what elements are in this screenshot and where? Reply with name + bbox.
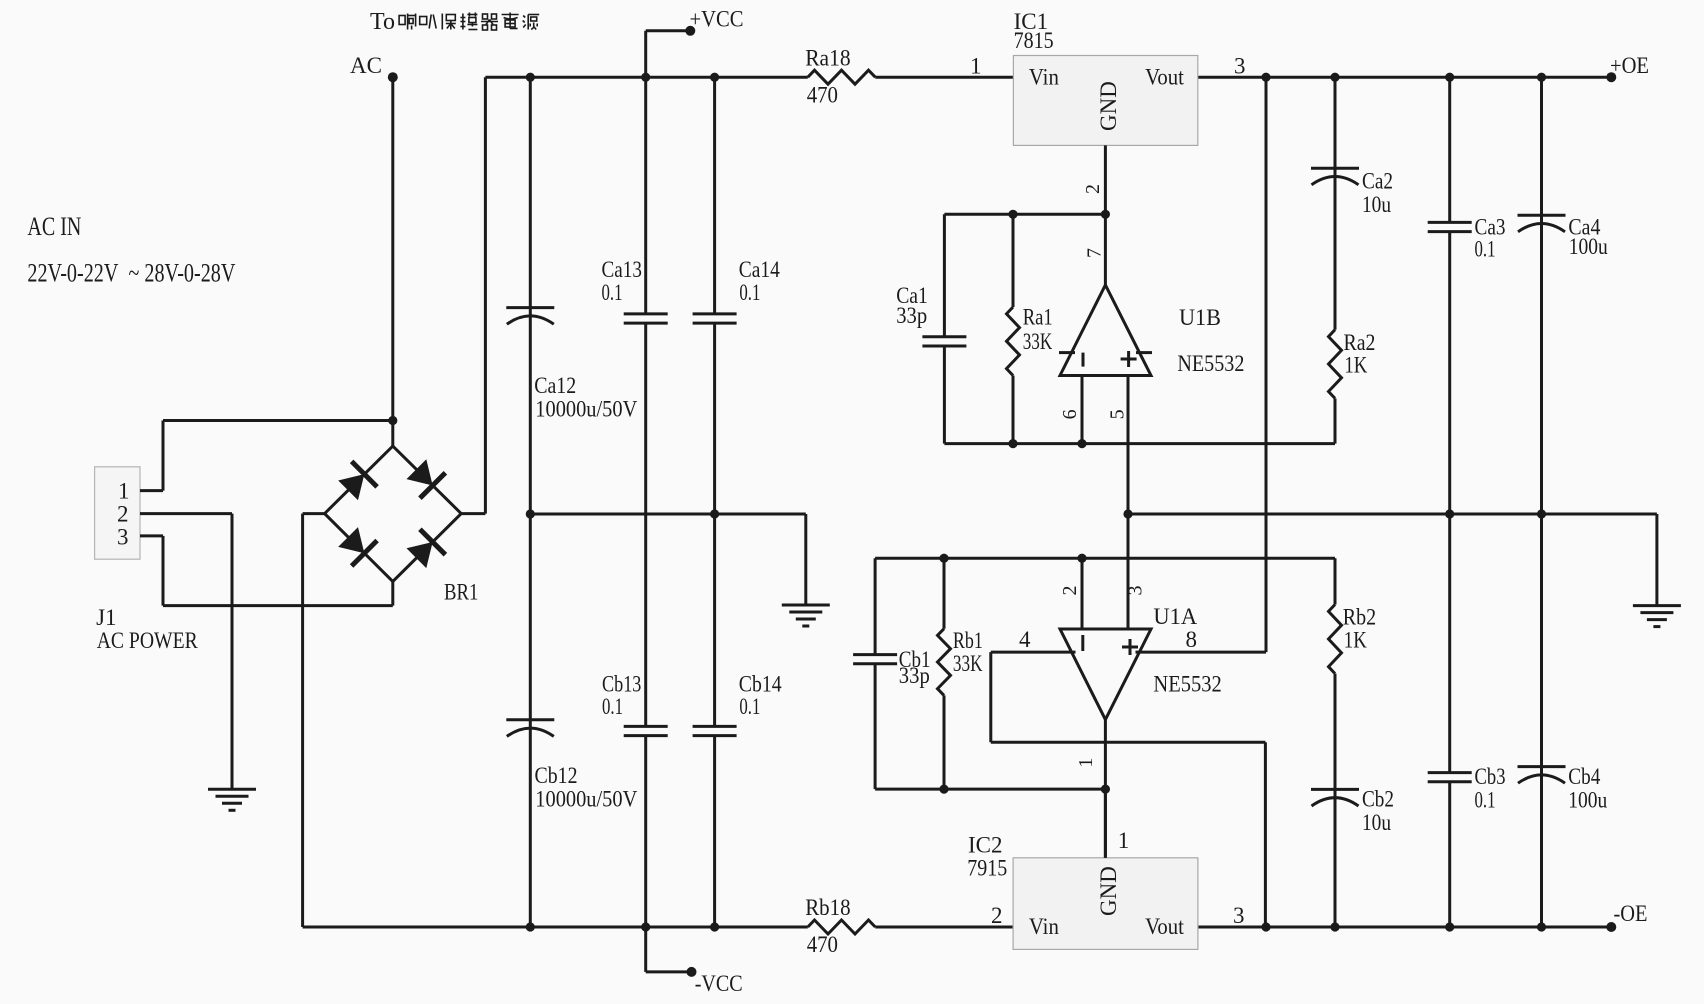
svg-text:Cb3: Cb3 (1475, 764, 1506, 789)
resistor Ra18 (808, 70, 876, 84)
resistor Ra1 upper lead (1012, 214, 1015, 307)
wire U1A pin2 lead (1081, 558, 1084, 629)
wire Rb2 upper lead from 558 bus (1334, 558, 1337, 604)
wire top rail from IC1 to +OE (1198, 76, 1611, 79)
svg-text:+VCC: +VCC (690, 7, 744, 32)
capacitor Ca1 lower lead (943, 346, 946, 444)
svg-text:33p: 33p (899, 663, 930, 688)
svg-text:IC2: IC2 (968, 833, 1003, 858)
svg-text:1: 1 (970, 54, 982, 79)
capacitor Cb12 (506, 718, 554, 721)
wire bridge right vertex to +rail (461, 512, 485, 515)
node AC terminal dot (388, 72, 398, 82)
svg-text:3: 3 (1233, 903, 1245, 928)
svg-text:AC POWER: AC POWER (97, 628, 199, 653)
op-amp U1B minus mark (1082, 353, 1085, 367)
wire +VCC stub (646, 29, 691, 32)
ground J1 pin2 (208, 788, 256, 791)
capacitor Cb4 (1518, 765, 1566, 768)
svg-text:Rb1: Rb1 (953, 628, 983, 653)
svg-text:33K: 33K (1023, 329, 1053, 354)
svg-text:NE5532: NE5532 (1177, 351, 1244, 376)
wire Ca12 Cb12 column (529, 77, 532, 927)
wire U1A pin8 column (1265, 77, 1268, 652)
op-amp U1B plus mark (1121, 358, 1137, 361)
diode BR1 bottom-left (335, 524, 377, 566)
op-amp U1A plus mark (1122, 646, 1138, 649)
junction dots mid rail right (1123, 509, 1132, 518)
capacitor Ca12 (506, 306, 554, 309)
svg-text:100u: 100u (1568, 788, 1607, 813)
capacitor Cb2 (1311, 788, 1359, 791)
svg-text:33p: 33p (896, 303, 927, 328)
svg-text:7: 7 (1084, 248, 1106, 258)
svg-text:AC: AC (350, 53, 382, 78)
svg-text:-OE: -OE (1614, 901, 1648, 926)
junction dots top rail (526, 73, 535, 82)
wire bottom rail from IC2 to -OE (1198, 926, 1611, 929)
svg-text:3: 3 (1124, 586, 1146, 596)
svg-text:Cb14: Cb14 (739, 672, 782, 697)
svg-text:6: 6 (1059, 409, 1081, 419)
wire Ca3 upper lead (1448, 77, 1451, 222)
capacitor Ca1 (922, 335, 966, 338)
svg-text:Vin: Vin (1029, 914, 1059, 939)
svg-text:2: 2 (1059, 586, 1081, 596)
node -OE terminal (1606, 922, 1616, 932)
svg-text:0.1: 0.1 (602, 280, 623, 305)
diode BR1 top-left (335, 461, 377, 503)
junction dots mid rail left (526, 509, 535, 518)
svg-text:470: 470 (807, 83, 838, 108)
svg-text:Rb18: Rb18 (805, 895, 850, 920)
resistor Rb2 (1329, 605, 1342, 674)
wire IC2 GND pin (1104, 789, 1107, 858)
svg-text:-VCC: -VCC (695, 971, 743, 996)
svg-text:Ra18: Ra18 (805, 46, 850, 71)
wire U1B pin6 lead (1081, 376, 1084, 444)
svg-text:Rb2: Rb2 (1343, 604, 1376, 629)
capacitor Cb14 (693, 725, 737, 728)
wire AC vertical (391, 77, 394, 420)
svg-text:Vin: Vin (1029, 65, 1059, 90)
svg-text:2: 2 (117, 502, 129, 527)
svg-text:100u: 100u (1569, 234, 1608, 259)
svg-text:8: 8 (1186, 627, 1198, 652)
svg-text:2: 2 (991, 903, 1003, 928)
svg-text:0.1: 0.1 (739, 280, 760, 305)
ground right (1633, 604, 1681, 607)
svg-text:7915: 7915 (967, 855, 1007, 880)
svg-text:5: 5 (1107, 409, 1129, 419)
wire J1 pin3 to bridge bottom (140, 534, 163, 537)
svg-text:4: 4 (1019, 627, 1031, 652)
diode BR1 bottom-right (404, 529, 446, 571)
svg-text:0.1: 0.1 (1475, 237, 1496, 262)
svg-text:Vout: Vout (1145, 914, 1184, 939)
resistor Ra1 (1007, 307, 1020, 376)
svg-text:GND: GND (1096, 866, 1121, 916)
svg-text:Cb13: Cb13 (602, 672, 641, 697)
node +OE terminal (1606, 72, 1616, 82)
resistor Ra2 (1329, 330, 1342, 399)
wire 789 bus (875, 788, 1105, 791)
svg-text:10u: 10u (1362, 192, 1391, 217)
resistor Ra1 lower lead (1012, 376, 1015, 444)
op-amp U1B triangle (1060, 285, 1151, 376)
capacitor Cb1 (853, 653, 897, 656)
wire 214 bus (Ca1,Ra1,pin7,pin2) (944, 213, 1105, 216)
svg-text:+OE: +OE (1610, 53, 1649, 78)
svg-text:3: 3 (117, 525, 129, 550)
svg-text:Cb2: Cb2 (1362, 787, 1394, 812)
IC2 7915 regulator box (1013, 858, 1198, 950)
resistor Rb18 (808, 920, 876, 934)
wire U1B pin5 / U1A pin3 column (1127, 376, 1130, 630)
wire Ca3-Cb3 middle lead (1448, 232, 1451, 773)
svg-text:Cb12: Cb12 (535, 763, 578, 788)
wire 558 bus (875, 557, 1335, 560)
junction dots 445 bus (1008, 439, 1017, 448)
capacitor Ca13 (624, 312, 668, 315)
svg-text:0.1: 0.1 (739, 694, 760, 719)
IC1 7815 regulator box (1013, 56, 1197, 146)
svg-text:33K: 33K (953, 651, 983, 676)
capacitor Ca4 (1518, 214, 1566, 217)
svg-text:Ra1: Ra1 (1023, 305, 1053, 330)
svg-text:0.1: 0.1 (602, 694, 623, 719)
wire mid rail right segment (1128, 513, 1657, 516)
svg-text:Ca2: Ca2 (1362, 169, 1393, 194)
node bridge top junction dot (388, 416, 397, 425)
junction dots bottom rail (526, 922, 535, 931)
svg-text:1K: 1K (1344, 352, 1367, 377)
resistor Rb1 (938, 629, 951, 696)
capacitor Ca14 (693, 312, 737, 315)
svg-text:1: 1 (118, 479, 130, 504)
wire bridge left vertex to -rail (303, 512, 325, 515)
wire Cb3 lower lead (1448, 782, 1451, 927)
wire Cb13 lower lead (644, 736, 647, 927)
wire bottom rail to IC2 (875, 926, 1014, 929)
wire IC1 GND pin (1104, 145, 1107, 214)
op-amp U1A triangle (1060, 629, 1151, 720)
resistor Rb1 upper lead (943, 558, 946, 629)
svg-text:7815: 7815 (1014, 28, 1054, 53)
wire bridge bottom vertex lead (391, 582, 394, 606)
wire U1A pin8 line (1136, 651, 1267, 654)
resistor Rb1 lower lead (943, 695, 946, 789)
wire U1A output pin1 (1104, 720, 1107, 858)
wire top rail to IC1 (875, 76, 1014, 79)
wire Ca2 column upper (1334, 77, 1337, 330)
svg-text:10000u/50V: 10000u/50V (535, 397, 637, 422)
wire Ca14-Cb14 middle lead (713, 323, 716, 726)
wire bridge top vertex lead (391, 421, 394, 447)
svg-text:2: 2 (1082, 184, 1104, 194)
wire -VCC stub (644, 927, 647, 972)
svg-text:AC IN: AC IN (27, 212, 81, 241)
node +VCC dot (685, 26, 695, 36)
svg-text:U1B: U1B (1179, 305, 1221, 330)
label CJK title glyphs (399, 14, 416, 30)
svg-text:J1: J1 (96, 605, 116, 630)
svg-text:Ca14: Ca14 (739, 257, 780, 282)
svg-text:3: 3 (1234, 54, 1246, 79)
wire Ca13 upper lead (644, 77, 647, 314)
wire mid rail left segment (530, 513, 806, 516)
capacitor Cb1 upper lead (874, 558, 877, 654)
wire J1 pin1 to bridge top (140, 489, 163, 492)
svg-text:Vout: Vout (1145, 65, 1184, 90)
capacitor Ca3 (1428, 221, 1472, 224)
wire bottom rail left segment (303, 926, 808, 929)
svg-text:470: 470 (807, 932, 838, 957)
svg-text:0.1: 0.1 (1475, 788, 1496, 813)
svg-text:1K: 1K (1344, 627, 1367, 652)
capacitor Cb13 (624, 725, 668, 728)
junction dots 558 bus (939, 554, 948, 563)
capacitor Cb3 (1428, 771, 1472, 774)
junction dots 789 bus (939, 785, 948, 794)
wire J1 pin2 to ground (140, 512, 232, 515)
svg-text:Cb4: Cb4 (1568, 764, 1600, 789)
wire U1B output pin7 lead (1104, 214, 1107, 285)
svg-text:Ca13: Ca13 (602, 257, 642, 282)
svg-text:BR1: BR1 (444, 580, 478, 605)
svg-text:10u: 10u (1362, 810, 1391, 835)
wire Ca13-Cb13 middle lead (644, 323, 647, 726)
capacitor Ca1 upper lead (943, 214, 946, 336)
wire U1A pin4 line (991, 651, 1076, 654)
connector J1 box (95, 467, 140, 559)
capacitor Ca2 (1311, 167, 1359, 170)
wire Ca4 Cb4 column (1540, 77, 1543, 927)
svg-text:GND: GND (1096, 81, 1121, 131)
wire Ca14 upper lead (713, 77, 716, 314)
svg-text:To: To (370, 9, 395, 35)
svg-text:22V-0-22V ~ 28V-0-28V: 22V-0-22V ~ 28V-0-28V (27, 259, 235, 288)
bridge rectifier BR1 diamond (325, 446, 462, 581)
wire 445 bus (944, 442, 1335, 445)
capacitor Cb1 lower lead (874, 664, 877, 789)
op-amp U1A minus mark (1081, 635, 1084, 651)
svg-text:Ra2: Ra2 (1344, 330, 1376, 355)
svg-text:10000u/50V: 10000u/50V (535, 786, 637, 811)
wire Rb2-Cb2 lead (1334, 674, 1337, 927)
op-amp U1B power stubs (1059, 351, 1075, 354)
wire Cb14 lower lead (713, 736, 716, 927)
svg-text:NE5532: NE5532 (1153, 672, 1221, 697)
wire top rail left segment (485, 76, 807, 79)
wire Ra2 lower lead to 445 bus (1334, 398, 1337, 443)
svg-text:1: 1 (1075, 758, 1097, 768)
ground mid-left (782, 604, 830, 607)
junction dots 214 bus (1008, 210, 1017, 219)
svg-text:U1A: U1A (1153, 604, 1197, 629)
diode BR1 top-right (404, 456, 446, 498)
svg-text:1: 1 (1118, 828, 1130, 853)
node -VCC dot (687, 967, 697, 977)
svg-text:Ca12: Ca12 (534, 373, 576, 398)
